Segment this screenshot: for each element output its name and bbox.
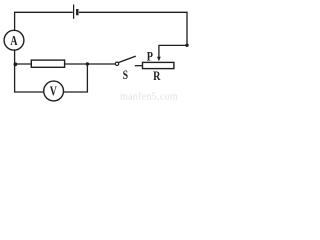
wire voltmeter right up to node b <box>63 64 87 92</box>
svg-text:A: A <box>10 32 17 48</box>
wire node a to resistor <box>15 63 31 65</box>
wire top rail right of battery down to right bend <box>79 12 187 45</box>
junction dot node a <box>14 62 18 66</box>
resistor box <box>31 60 64 67</box>
svg-text:manfen5.com: manfen5.com <box>120 92 178 103</box>
battery B short thick plate <box>76 9 78 15</box>
voltmeter V circle <box>44 81 64 101</box>
switch S lever <box>119 56 136 62</box>
wire ammeter top to top rail <box>15 12 73 30</box>
wire right bend to slider arrow <box>159 45 187 57</box>
battery B long plate <box>73 5 75 19</box>
switch S contact circle <box>115 62 118 65</box>
svg-text:S: S <box>123 69 128 83</box>
junction dot node b <box>86 62 89 65</box>
slider P arrowhead <box>157 57 161 62</box>
wire switch to rheostat <box>135 65 142 67</box>
ammeter A circle <box>4 30 24 50</box>
svg-text:R: R <box>153 69 161 83</box>
rheostat R box <box>143 62 174 68</box>
svg-text:P: P <box>147 49 153 63</box>
junction dot right bend <box>185 44 188 47</box>
svg-text:V: V <box>50 83 57 99</box>
wire resistor to switch <box>65 63 116 65</box>
wire left vertical below ammeter to voltmeter <box>15 50 44 92</box>
